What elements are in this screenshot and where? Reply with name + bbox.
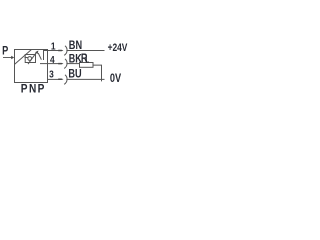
connector socket arc pin 1	[64, 46, 67, 56]
BK wire to resistor	[66, 63, 80, 65]
pin 4 wire inside box	[40, 63, 48, 65]
adjuster arrowhead	[35, 51, 38, 55]
switch lever	[38, 53, 41, 60]
svg-text:BU: BU	[68, 68, 81, 80]
connector arrowhead pin 4	[58, 63, 63, 65]
svg-text:P: P	[2, 46, 8, 58]
svg-text:BN: BN	[69, 40, 82, 52]
connector socket arc pin 3	[64, 75, 67, 85]
adjuster arrow shaft	[28, 52, 37, 64]
pin 1 wire inside box	[44, 50, 48, 52]
connector arrowhead pin 1	[58, 50, 63, 52]
pin 4 stub	[48, 63, 60, 65]
load resistor RL	[80, 63, 94, 68]
adjuster circle	[28, 57, 32, 61]
contact bar	[43, 50, 45, 60]
connector socket arc pin 4	[64, 59, 67, 69]
svg-text:+24V: +24V	[108, 42, 128, 55]
BN wire to +24V	[66, 50, 104, 52]
BU wire 0V rail	[66, 78, 104, 80]
pin 1 stub	[48, 50, 60, 52]
pin 3 stub	[48, 78, 60, 80]
svg-text:1: 1	[51, 41, 56, 53]
inner adjuster box	[25, 55, 35, 63]
resistor output wire	[93, 65, 102, 81]
connector arrowhead pin 3	[58, 78, 63, 80]
actuation diagonal	[15, 50, 32, 65]
svg-text:L: L	[86, 57, 90, 65]
P arrow	[3, 56, 14, 60]
svg-text:4: 4	[50, 54, 55, 66]
svg-text:PNP: PNP	[21, 83, 46, 96]
svg-text:3: 3	[49, 69, 54, 81]
nozzle tick	[25, 57, 28, 59]
sensor body outer box	[15, 50, 48, 83]
svg-text:0V: 0V	[110, 73, 121, 85]
